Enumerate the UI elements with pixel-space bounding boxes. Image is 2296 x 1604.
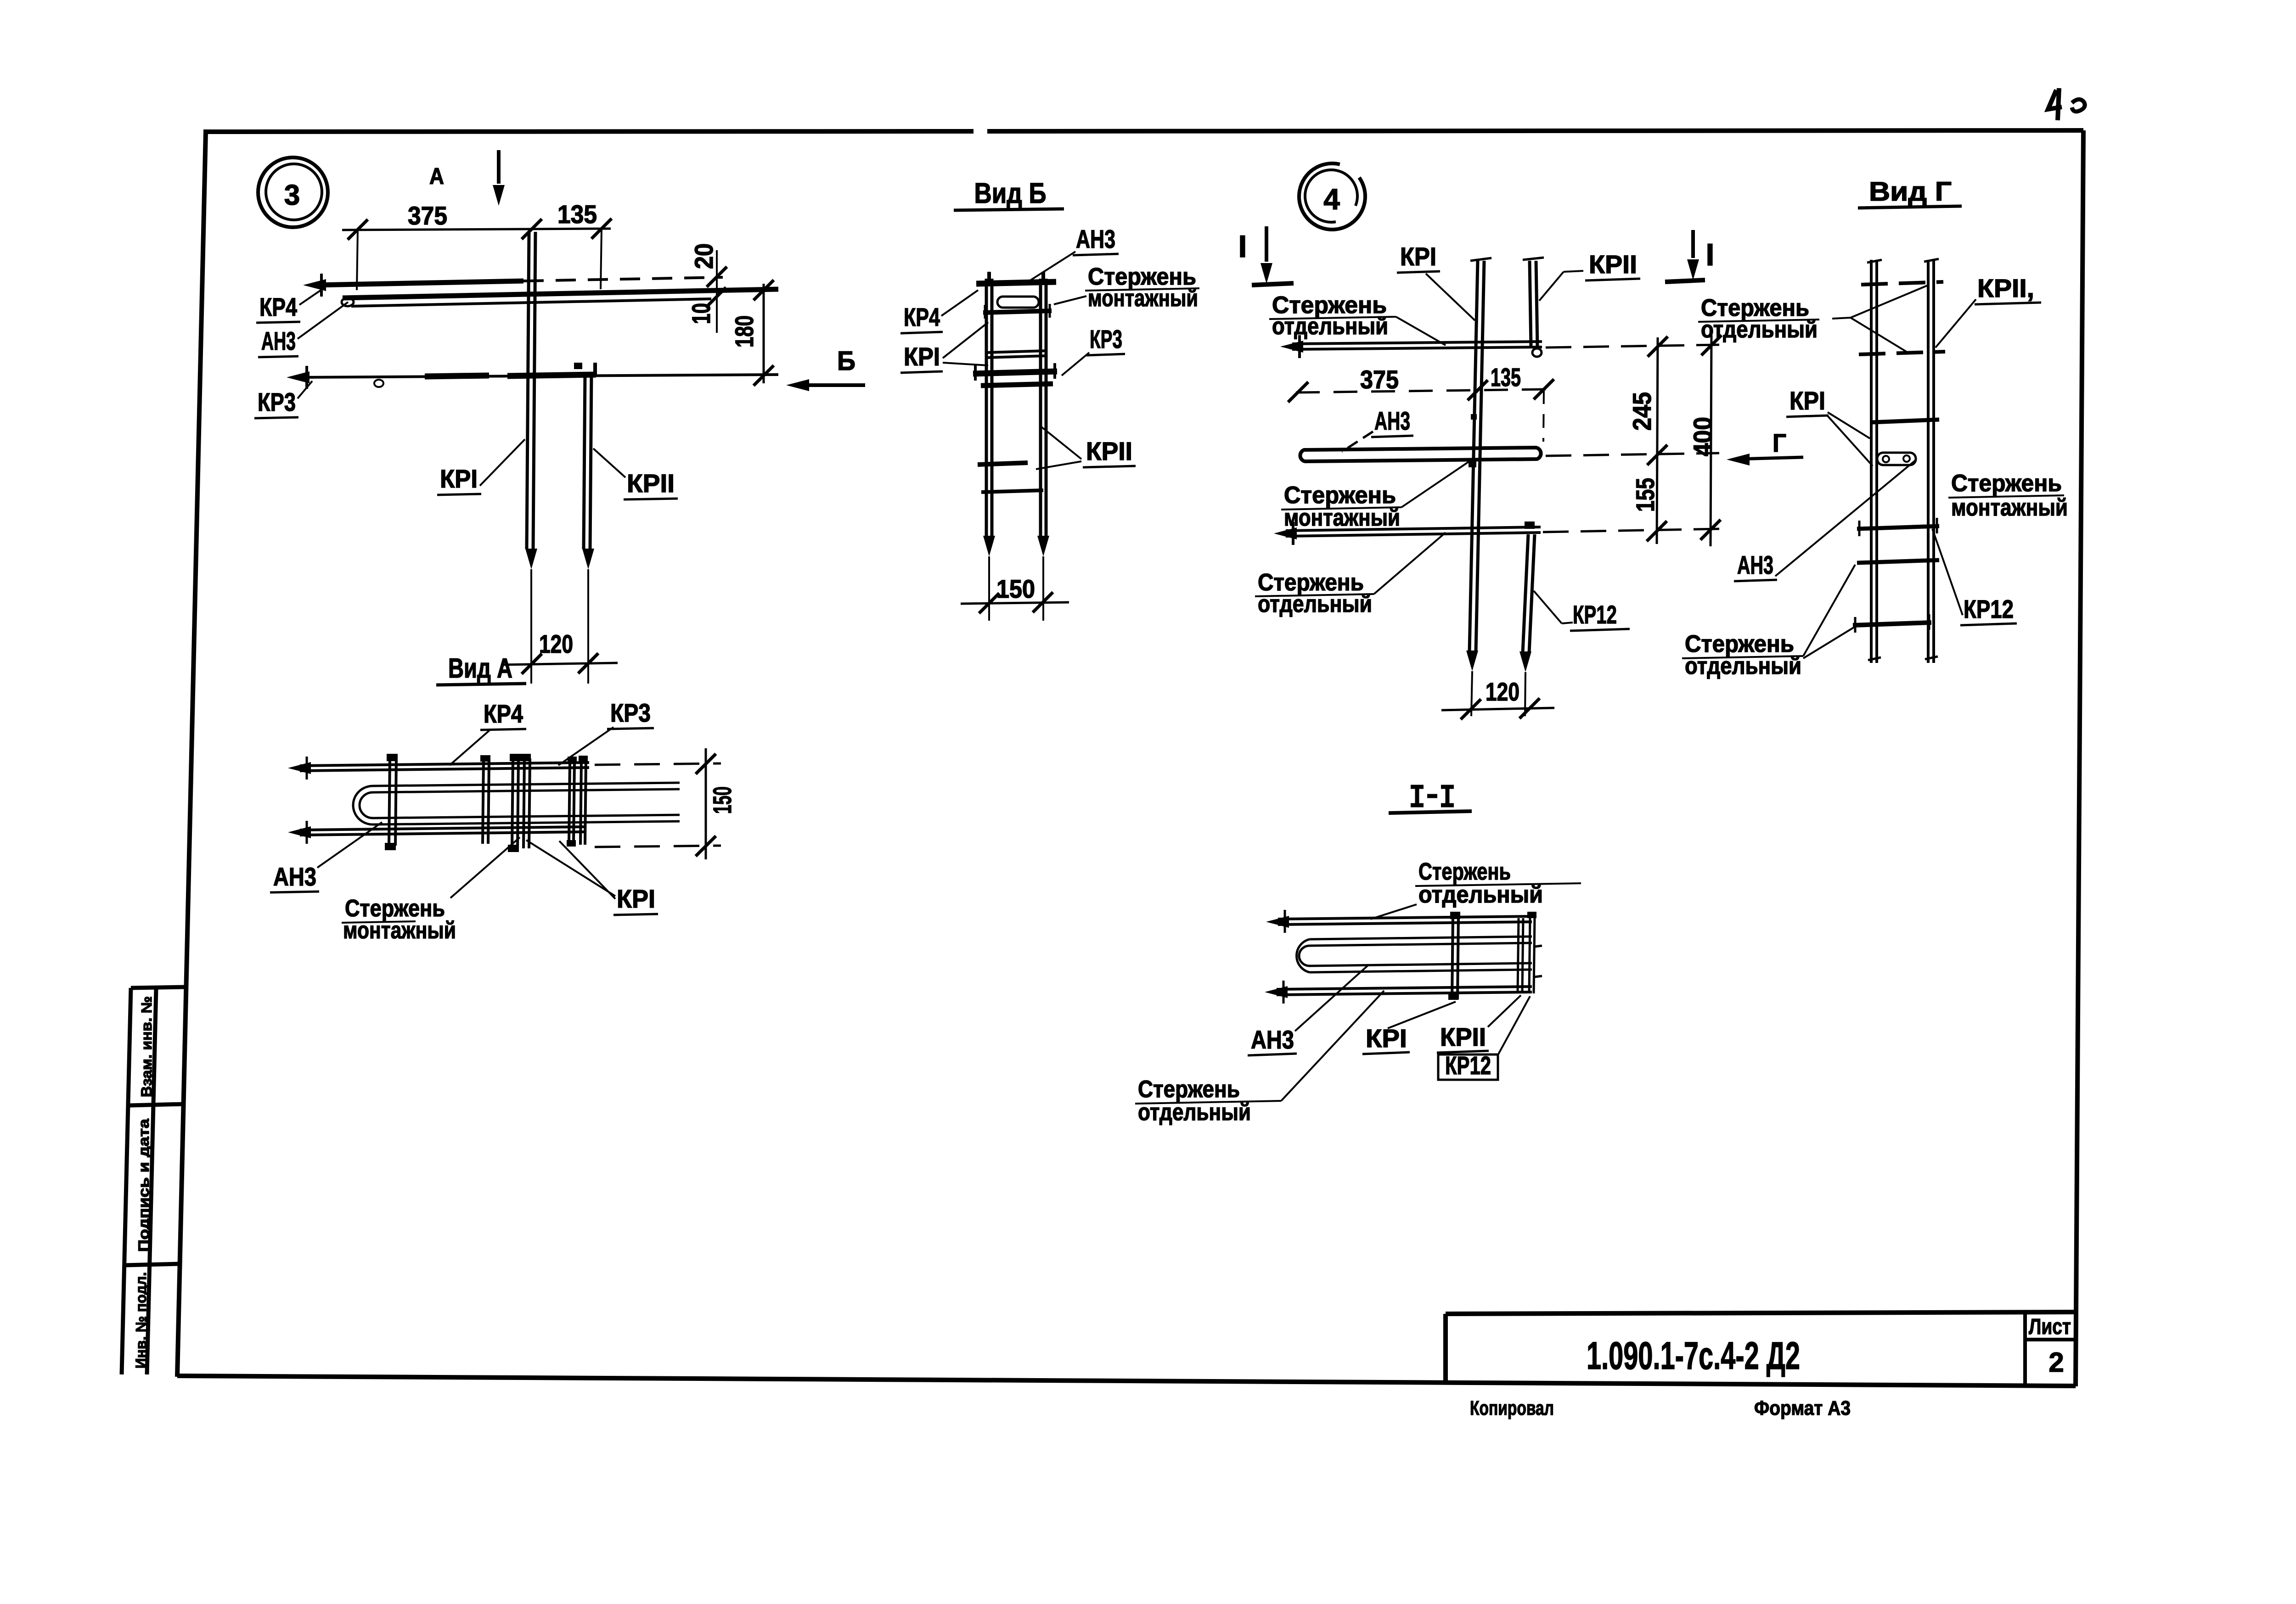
right end verticals section 1-1	[1518, 918, 1519, 992]
svg-text:120: 120	[1486, 677, 1519, 706]
svg-text:КРII: КРII	[1589, 250, 1637, 279]
svg-text:1.090.1-7с.4-2 Д2: 1.090.1-7с.4-2 Д2	[1587, 1334, 1800, 1377]
svg-text:КР4: КР4	[484, 699, 523, 728]
svg-text:Вид А: Вид А	[448, 653, 512, 684]
svg-text:135: 135	[1491, 363, 1521, 392]
stamp row separator 1	[128, 1104, 183, 1105]
frame bottom border	[177, 1376, 2076, 1386]
svg-text:Формат А3: Формат А3	[1754, 1397, 1851, 1419]
stamp column top edge	[131, 987, 186, 988]
frame left border	[177, 132, 206, 1377]
svg-text:КР4: КР4	[259, 292, 297, 321]
rung with flanges	[1857, 526, 1939, 529]
stamp column outer left edge	[122, 988, 131, 1374]
stamp row separator 2	[125, 1264, 180, 1265]
svg-text:КРII: КРII	[1440, 1022, 1486, 1051]
bar КР4 top line	[316, 281, 523, 285]
bar АН3 detail 4	[1300, 448, 1541, 461]
lower rung 2	[981, 490, 1043, 492]
svg-text:АН3: АН3	[1737, 550, 1773, 579]
vertical tie КРI section 1-1	[1452, 916, 1453, 999]
rail top ticks	[1867, 260, 1882, 263]
section 1-1 title	[1411, 787, 1454, 805]
bar КР3 thick dash 2	[507, 375, 596, 376]
U-bar АН3 view А	[373, 783, 680, 786]
bar КР4 second line	[343, 289, 778, 298]
plate КР3	[973, 371, 1057, 374]
tie 3 double view А	[512, 758, 513, 848]
capsule Стержень монтажный view Б	[997, 297, 1039, 308]
second bar below КР3	[981, 384, 1053, 386]
svg-text:Б: Б	[837, 346, 855, 376]
svg-text:монтажный: монтажный	[1951, 494, 2068, 521]
detail circle 3	[258, 157, 328, 227]
svg-text:4: 4	[1323, 183, 1340, 216]
rail extension lines	[988, 556, 990, 621]
dim connectors right	[1546, 345, 1719, 348]
bar КРII vertical top detail 4	[1530, 261, 1531, 347]
extension line left	[357, 230, 358, 290]
dimension 20	[716, 250, 718, 333]
rung lower	[1857, 560, 1939, 563]
rail bottom arrowheads	[983, 536, 995, 556]
bar КРI vertical detail 4	[1469, 261, 1478, 651]
svg-text:Лист: Лист	[2029, 1315, 2071, 1339]
bar АН3 thin line	[351, 299, 711, 306]
svg-text:КРI: КРI	[617, 884, 655, 913]
dashed dim line 375/135 detail 4	[1296, 389, 1546, 393]
bar Стержень отдельный top detail 4	[1292, 342, 1542, 344]
svg-text:А: А	[429, 163, 444, 189]
svg-text:КР3: КР3	[610, 698, 651, 727]
svg-text:150: 150	[708, 786, 737, 814]
U-bar АН3 section 1-1	[1310, 937, 1532, 939]
svg-text:I: I	[1706, 237, 1715, 272]
mid thin rungs	[985, 351, 1047, 353]
svg-text:КР12: КР12	[1964, 594, 2014, 623]
svg-text:КР3: КР3	[258, 387, 296, 416]
frame top border	[203, 131, 974, 132]
svg-text:375: 375	[1360, 365, 1399, 394]
svg-text:Взам. инв. №: Взам. инв. №	[138, 996, 155, 1097]
lower rung 1	[978, 463, 1028, 465]
svg-text:375: 375	[408, 201, 447, 230]
svg-text:КРI: КРI	[904, 342, 940, 371]
hook on bar	[593, 363, 597, 376]
svg-text:КР4: КР4	[904, 303, 940, 331]
svg-text:400: 400	[1688, 417, 1717, 456]
tie 1 view А	[389, 758, 390, 846]
bottom bar section 1-1	[1277, 987, 1532, 989]
svg-text:КРI: КРI	[1366, 1024, 1407, 1053]
svg-text:I: I	[1238, 229, 1247, 264]
tie 2 view А	[483, 760, 484, 844]
ladder right rail	[1039, 279, 1042, 538]
svg-text:КР12: КР12	[1445, 1051, 1491, 1080]
bar КРII vertical	[584, 373, 585, 549]
svg-text:Инв. № подл.: Инв. № подл.	[133, 1272, 149, 1368]
svg-text:КР3: КР3	[1090, 325, 1122, 353]
svg-text:КРII: КРII	[627, 469, 675, 498]
bar КР3 thick dash 1	[425, 376, 489, 376]
svg-text:10: 10	[687, 303, 715, 324]
dimension line 375/135 detail 3	[342, 229, 611, 230]
svg-text:КРI: КРI	[1400, 242, 1436, 271]
dashed rung 2	[1859, 352, 1945, 354]
dimension 120 detail 3	[503, 663, 618, 665]
svg-text:155: 155	[1631, 478, 1660, 512]
dimension line 400	[1711, 335, 1711, 546]
svg-text:КРI: КРI	[440, 464, 478, 493]
svg-text:245: 245	[1627, 392, 1656, 431]
bottom chord view А	[300, 827, 585, 830]
label КР12 boxed section 1-1	[1438, 1054, 1498, 1080]
svg-text:Копировал: Копировал	[1470, 1397, 1554, 1419]
handwritten page mark top right	[2048, 88, 2062, 120]
ladder left rail	[985, 279, 988, 538]
svg-text:180: 180	[730, 315, 759, 348]
ladder Г right rail	[1927, 260, 1930, 663]
svg-text:АН3: АН3	[1374, 406, 1410, 435]
top plate КР4	[976, 282, 1056, 284]
svg-text:150: 150	[996, 574, 1035, 603]
svg-text:Вид Г: Вид Г	[1869, 177, 1952, 207]
title block outline	[1446, 1312, 2076, 1314]
rail top nubs	[987, 272, 991, 281]
svg-text:120: 120	[539, 629, 573, 658]
svg-text:АН3: АН3	[273, 862, 316, 891]
capsule Стержень монтажный	[1877, 453, 1916, 465]
svg-text:Стержень: Стержень	[1951, 470, 2062, 497]
dimension 150 view А	[705, 748, 707, 859]
dimension 180	[763, 284, 765, 383]
svg-text:КРII,: КРII,	[1977, 274, 2034, 303]
dimension line 245/155	[1657, 337, 1658, 544]
dimension 150 view Б	[961, 602, 1069, 604]
bar Стержень монтажный lower detail 4	[1286, 527, 1541, 531]
svg-text:Вид Б: Вид Б	[974, 178, 1047, 209]
svg-text:3: 3	[284, 179, 300, 211]
svg-text:2: 2	[2048, 1347, 2064, 1378]
bottom flange rung	[1853, 623, 1931, 625]
svg-text:Г: Г	[1773, 428, 1786, 457]
svg-text:АН3: АН3	[1076, 224, 1115, 253]
detail circle 4	[1286, 151, 1379, 243]
bar КРI vertical	[527, 232, 529, 549]
extension line right	[601, 229, 602, 289]
rung below capsule	[983, 311, 1052, 313]
bar КР12 vertical detail 4	[1523, 534, 1528, 653]
svg-text:135: 135	[557, 200, 597, 229]
dimension 120 detail 4	[1441, 708, 1554, 710]
svg-text:АН3: АН3	[1251, 1025, 1294, 1054]
ladder Г left rail	[1870, 260, 1873, 663]
dashed rung 1	[1861, 282, 1943, 285]
frame right border	[2076, 130, 2083, 1386]
svg-text:20: 20	[689, 243, 718, 269]
bar КР3 row thin line	[299, 375, 778, 377]
view arrow Б	[797, 383, 865, 387]
top chord view А	[300, 763, 589, 766]
svg-text:Подпись и дата: Подпись и дата	[135, 1119, 152, 1252]
dashed extension to dim right	[595, 763, 721, 765]
top bar section 1-1	[1278, 916, 1532, 919]
right end ties view А	[569, 761, 570, 843]
stamp column inner divider	[147, 988, 156, 1374]
svg-text:КР12: КР12	[1573, 600, 1617, 629]
svg-text:КРI: КРI	[1790, 386, 1825, 415]
svg-text:АН3: АН3	[261, 326, 296, 355]
solid rung mid	[1871, 420, 1939, 422]
svg-text:КРII: КРII	[1086, 437, 1132, 465]
